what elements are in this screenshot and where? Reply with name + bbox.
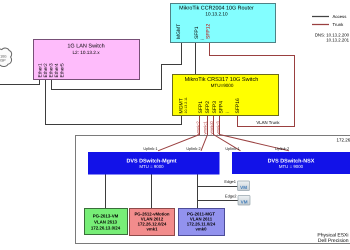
svg-text:L2: 10.13.2.x: L2: 10.13.2.x (72, 50, 100, 55)
svg-text:VM: VM (240, 185, 247, 190)
svg-text:MTU = 9000: MTU = 9000 (279, 164, 304, 169)
svg-text:SFP4: SFP4 (218, 101, 224, 114)
svg-text:vmnic0: vmnic0 (209, 121, 214, 135)
svg-text:Edge1: Edge1 (224, 179, 236, 184)
svg-text:Uplink-1: Uplink-1 (143, 146, 157, 151)
svg-text:VLAN Trunk: VLAN Trunk (256, 120, 280, 125)
svg-text:MGMT: MGMT (176, 24, 182, 39)
svg-text:Access: Access (333, 14, 347, 19)
svg-text:SFP1: SFP1 (198, 101, 204, 114)
svg-text:Ether5: Ether5 (60, 63, 66, 77)
svg-text:SFP16: SFP16 (235, 98, 241, 114)
svg-text:vmnic3: vmnic3 (216, 121, 221, 135)
svg-text:Dell Precision: Dell Precision (318, 238, 349, 244)
svg-text:Uplink-1: Uplink-1 (225, 146, 239, 151)
svg-text:SFP3: SFP3 (212, 101, 218, 114)
svg-text:Uplink-2: Uplink-2 (186, 146, 200, 151)
svg-text:Uplink-2: Uplink-2 (275, 146, 289, 151)
svg-text:Ether3: Ether3 (49, 63, 55, 77)
svg-text:vmnic1: vmnic1 (203, 121, 208, 135)
svg-text:10.13.2.10: 10.13.2.10 (205, 12, 228, 17)
svg-text:172.26.11: 172.26.11 (337, 138, 350, 143)
svg-text:...: ... (225, 109, 229, 115)
svg-text:1G LAN Switch: 1G LAN Switch (67, 44, 104, 50)
svg-text:Edge2: Edge2 (225, 194, 237, 199)
svg-text:vmk1: vmk1 (147, 227, 159, 232)
svg-text:SFP1: SFP1 (194, 26, 200, 39)
svg-text:SFP12: SFP12 (205, 23, 211, 39)
svg-text:Ether4: Ether4 (54, 63, 60, 77)
svg-text:vmnic2: vmnic2 (195, 121, 200, 135)
svg-text:MTU=9000: MTU=9000 (211, 83, 234, 88)
svg-text:Trunk: Trunk (333, 22, 345, 27)
svg-text:Ether2: Ether2 (43, 63, 49, 77)
svg-text:10.13.2.201: 10.13.2.201 (326, 37, 349, 42)
svg-text:ISP: ISP (0, 59, 6, 63)
svg-text:SFP2: SFP2 (205, 101, 211, 114)
svg-text:10.13.2.11: 10.13.2.11 (184, 97, 188, 113)
svg-text:Ether1: Ether1 (38, 63, 44, 77)
svg-text:172.26.13.0/24: 172.26.13.0/24 (91, 226, 121, 231)
svg-text:VLAN 2613: VLAN 2613 (94, 220, 117, 225)
svg-text:...: ... (200, 36, 204, 42)
svg-text:MTU = 9000: MTU = 9000 (139, 164, 164, 169)
svg-text:vmk0: vmk0 (196, 227, 208, 232)
svg-text:VM: VM (241, 199, 248, 204)
svg-text:PG-2613-VM: PG-2613-VM (93, 214, 119, 219)
